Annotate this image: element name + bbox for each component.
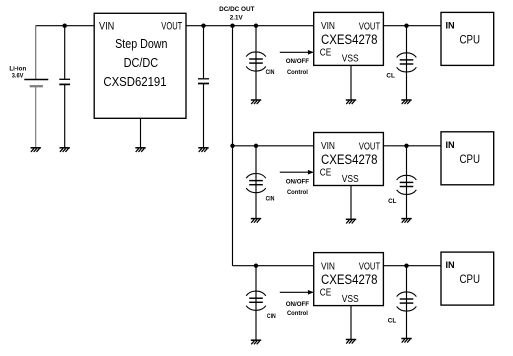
svg-text:VIN: VIN xyxy=(321,141,335,152)
svg-text:VIN: VIN xyxy=(99,20,114,32)
svg-text:CXES4278: CXES4278 xyxy=(321,272,378,287)
wire branch row 2 from distribution rail xyxy=(233,145,314,147)
wire CIN lead row 3 xyxy=(255,266,257,341)
ground output cap xyxy=(198,148,208,152)
node junction CIN row 3 xyxy=(254,264,258,268)
ground battery xyxy=(31,148,41,152)
node junction input cap xyxy=(62,24,66,28)
wire VOUT to CPU row 1 xyxy=(383,25,441,27)
svg-text:CE: CE xyxy=(320,47,332,58)
wire CE control line row 2 xyxy=(280,171,309,173)
wire U1 ground lead xyxy=(140,118,142,148)
regulator U3 CXES4278 row 2 xyxy=(314,133,384,186)
svg-text:CPU: CPU xyxy=(460,152,481,166)
svg-text:CIN: CIN xyxy=(266,197,275,203)
svg-text:Control: Control xyxy=(287,189,308,196)
wire VOUT to CPU row 3 xyxy=(383,265,441,267)
node junction CIN row 1 xyxy=(254,24,258,28)
svg-text:IN: IN xyxy=(446,21,455,31)
wire battery positive lead xyxy=(35,25,37,79)
wire output cap lower lead xyxy=(203,84,205,148)
label ON/OFF Control row 3 xyxy=(286,301,309,317)
label ON/OFF Control row 1 xyxy=(286,58,309,76)
regulator U2 CXES4278 row 1 xyxy=(314,12,384,65)
capacitor CL row 2 xyxy=(397,175,417,194)
svg-text:DC/DC: DC/DC xyxy=(124,55,159,70)
wire VSS lead row 2 xyxy=(350,186,352,220)
step-down regulator U1 CXSD62191 xyxy=(94,13,186,118)
load block CPU row 2 xyxy=(441,132,494,185)
svg-text:ON/OFF: ON/OFF xyxy=(286,301,309,308)
capacitor CL row 3 xyxy=(397,292,417,311)
svg-text:CL: CL xyxy=(386,74,395,80)
wire battery negative lead xyxy=(35,87,37,148)
wire CIN lead row 2 xyxy=(255,146,257,219)
ground CIN row 3 xyxy=(251,340,261,344)
ground CL row 1 xyxy=(401,100,411,104)
ground VSS row 1 xyxy=(346,100,356,104)
wire CL lead row 1 xyxy=(406,26,408,100)
label DC/DC OUT 2.1V net xyxy=(219,6,255,21)
wire top rail from battery to VIN of CXSD62191 xyxy=(36,25,94,27)
wire CL lead row 2 xyxy=(406,146,408,219)
wire vertical distribution rail xyxy=(232,26,234,266)
svg-text:CE: CE xyxy=(320,167,332,178)
ground input cap xyxy=(60,148,70,152)
svg-text:CXES4278: CXES4278 xyxy=(321,32,378,47)
svg-text:VOUT: VOUT xyxy=(161,20,182,32)
wire input cap upper lead xyxy=(64,26,66,79)
svg-text:IN: IN xyxy=(446,140,455,150)
wire output cap upper lead xyxy=(203,26,205,79)
ground CIN row 2 xyxy=(251,219,261,223)
battery B1 Li-ion 3.6V xyxy=(24,80,48,87)
wire branch row 3 from distribution rail xyxy=(233,265,314,267)
svg-text:ON/OFF: ON/OFF xyxy=(286,58,309,65)
ground CL row 3 xyxy=(401,339,411,343)
svg-text:ON/OFF: ON/OFF xyxy=(286,178,309,185)
wire input cap lower lead xyxy=(64,85,66,148)
capacitor CIN row 3 xyxy=(246,291,266,310)
label Li-ion 3.6V xyxy=(9,65,26,79)
capacitor C1 input xyxy=(59,79,70,84)
svg-text:CPU: CPU xyxy=(460,33,481,47)
wire CIN lead row 1 xyxy=(255,26,257,100)
svg-text:Control: Control xyxy=(287,310,308,317)
capacitor C2 output xyxy=(198,79,209,84)
svg-text:3.6V: 3.6V xyxy=(12,73,24,80)
wire CE control line row 3 xyxy=(280,291,309,293)
ground CL row 2 xyxy=(401,219,411,223)
svg-text:CL: CL xyxy=(388,318,397,324)
label ON/OFF Control row 2 xyxy=(286,178,309,196)
arrowhead CE row 3 xyxy=(308,290,314,295)
node junction CL row 3 xyxy=(404,264,408,268)
node junction output cap xyxy=(201,24,205,28)
arrowhead CE row 1 xyxy=(308,50,314,55)
svg-text:VSS: VSS xyxy=(342,294,359,305)
svg-text:CE: CE xyxy=(320,288,332,299)
capacitor CL row 1 xyxy=(397,53,417,72)
node junction CL row 1 xyxy=(404,24,408,28)
svg-text:2.1V: 2.1V xyxy=(230,14,243,21)
arrowhead CE row 2 xyxy=(308,170,314,175)
wire CL lead row 3 xyxy=(406,266,408,339)
regulator U4 CXES4278 row 3 xyxy=(314,253,384,306)
svg-text:VSS: VSS xyxy=(342,54,359,65)
svg-text:CL: CL xyxy=(388,199,397,205)
svg-text:VIN: VIN xyxy=(321,261,335,272)
ground VSS row 3 xyxy=(346,340,356,344)
ground CIN row 1 xyxy=(251,100,261,104)
node junction CIN row 2 xyxy=(254,144,258,148)
svg-text:CPU: CPU xyxy=(460,272,481,286)
svg-text:VSS: VSS xyxy=(342,174,359,185)
capacitor CIN row 1 xyxy=(246,52,266,71)
node junction CL row 2 xyxy=(404,144,408,148)
node junction rail row 2 xyxy=(230,144,234,148)
svg-text:CXSD62191: CXSD62191 xyxy=(103,74,166,89)
svg-text:CXES4278: CXES4278 xyxy=(321,152,378,167)
wire VSS lead row 1 xyxy=(350,65,352,100)
svg-text:IN: IN xyxy=(446,260,455,270)
ground VSS row 2 xyxy=(346,219,356,223)
svg-text:CIN: CIN xyxy=(266,70,275,76)
svg-text:CIN: CIN xyxy=(267,314,276,320)
wire VSS lead row 3 xyxy=(350,306,352,340)
wire VOUT to CPU row 2 xyxy=(383,145,441,147)
svg-text:Step Down: Step Down xyxy=(115,36,167,51)
wire CE control line row 1 xyxy=(280,51,309,53)
node junction distribution rail xyxy=(230,24,234,28)
capacitor CIN row 2 xyxy=(246,174,266,193)
svg-text:Control: Control xyxy=(287,69,308,76)
svg-text:DC/DC OUT: DC/DC OUT xyxy=(219,6,255,13)
load block CPU row 1 xyxy=(441,12,494,65)
ground U1 xyxy=(135,148,145,152)
svg-text:Li-ion: Li-ion xyxy=(9,65,26,72)
svg-text:VIN: VIN xyxy=(321,21,335,32)
load block CPU row 3 xyxy=(441,252,494,305)
wire output rail from U1 VOUT xyxy=(186,25,314,27)
